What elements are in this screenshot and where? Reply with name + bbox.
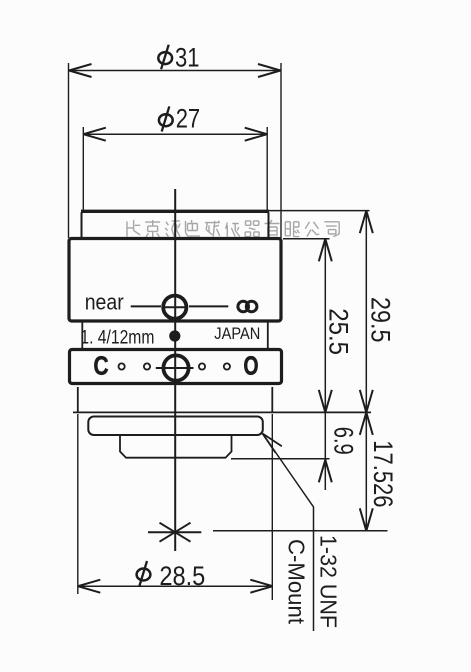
focus ring (phi31)	[69, 239, 281, 322]
aperture ring (phi31)	[70, 350, 282, 384]
centerline	[174, 189, 176, 551]
dimension 6.9	[319, 412, 359, 490]
svg-text:31: 31	[175, 43, 200, 73]
rear cylinder with chamfered corners	[120, 435, 232, 458]
svg-text:C-Mount: C-Mount	[284, 539, 310, 624]
svg-text:6.9: 6.9	[328, 427, 358, 455]
svg-text:27: 27	[176, 104, 201, 134]
dimension phi27	[83, 104, 267, 211]
svg-text:O: O	[244, 351, 259, 381]
flange plane line	[73, 411, 371, 413]
watermark 北京派迪威仪器有限公司 (pseudo-glyphs)	[127, 220, 339, 238]
reference line 25.5 top	[283, 238, 330, 240]
focus index line right	[189, 305, 228, 307]
reference line 6.9 bottom	[231, 458, 330, 460]
dimension phi31	[69, 43, 282, 239]
aperture index circle	[156, 355, 194, 380]
svg-text:28.5: 28.5	[159, 561, 205, 591]
svg-text:near: near	[85, 290, 124, 315]
dimension 29.5	[360, 211, 396, 413]
svg-text:C: C	[94, 351, 109, 381]
image plane star mark	[148, 523, 201, 542]
svg-text:1. 4/12mm: 1. 4/12mm	[80, 328, 154, 349]
focus index circle	[163, 296, 187, 319]
svg-text:JAPAN: JAPAN	[214, 325, 260, 343]
svg-text:25.5: 25.5	[323, 308, 353, 355]
dimension phi28.5	[78, 414, 273, 600]
aperture dots	[119, 363, 230, 369]
lens front barrel (phi27 section)	[81, 211, 269, 238]
dimension 25.5	[319, 239, 354, 413]
dimension 17.526	[360, 412, 398, 530]
C-mount thread body	[88, 417, 262, 436]
reference line 29.5 top	[267, 210, 370, 212]
focus index line left	[131, 305, 161, 307]
svg-text:1-32 UNF: 1-32 UNF	[315, 535, 341, 628]
index dot	[169, 330, 180, 341]
infinity symbol	[238, 301, 257, 312]
reference line image plane	[213, 530, 388, 532]
svg-text:29.5: 29.5	[366, 297, 396, 343]
lower band (phi28.5 rear)	[78, 387, 272, 412]
svg-text:17.526: 17.526	[368, 440, 398, 507]
thread leader line	[263, 434, 314, 632]
mid band (1.4/12mm JAPAN) sides	[82, 322, 267, 349]
